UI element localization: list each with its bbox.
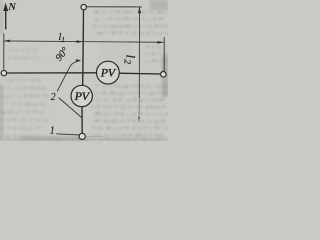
dimension extension line left [3,34,5,70]
svg-text:N: N [7,2,16,13]
dimension extension line top [87,6,142,8]
wire: vertical conductor [82,10,84,134]
voltmeter PV lower [71,85,92,106]
svg-text:2: 2 [51,92,56,103]
wire: horizontal conductor [7,73,161,74]
leader for 1 [56,134,79,135]
90-degree annotation leader [57,61,79,92]
terminal: left [1,70,6,75]
paper background [0,0,168,141]
dimension line l1 (horizontal, spans full width) [3,40,163,44]
north arrow N [3,3,8,30]
terminal: right [161,72,167,78]
terminal: bottom [79,133,85,139]
label l2 (rotated) [122,55,138,65]
label 90deg (rotated) [54,46,71,64]
terminal: top [81,4,86,9]
dimension line l2 (vertical right) [138,7,141,123]
bleed-through text noise [0,11,168,142]
faint stub right of bottom terminal [86,135,103,137]
90-degree arc arrowhead [76,59,82,62]
voltmeter PV upper [97,61,120,84]
shading patches [0,0,168,141]
dimension extension line right [163,37,165,71]
svg-text:PV: PV [74,89,91,103]
leader for 2 [59,98,82,118]
svg-text:PV: PV [100,66,117,80]
svg-text:1: 1 [50,125,55,136]
